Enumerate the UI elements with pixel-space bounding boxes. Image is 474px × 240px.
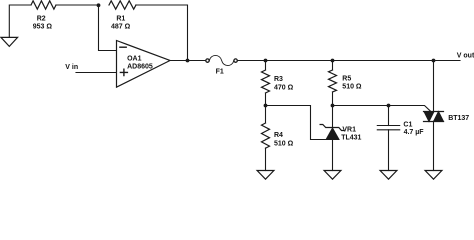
R2 labels [33,15,53,30]
capacitor C1 [377,126,399,130]
op-amp OA1 AD8605 [117,41,171,88]
label V in [65,64,78,71]
svg-text:510 Ω: 510 Ω [274,141,294,148]
R1 labels [111,16,131,31]
wire ground to R2 [9,5,31,37]
ground (below R4) [257,171,274,180]
ground (below triac) [425,171,442,180]
svg-text:V in: V in [65,64,78,71]
svg-text:VR1: VR1 [342,127,356,134]
junction C1 tap [387,104,391,108]
resistor R2 [31,1,56,9]
resistor R3 [262,70,270,93]
junction bus/triac [432,59,436,63]
svg-text:953 Ω: 953 Ω [33,24,53,31]
junction bus/R5 [331,59,335,63]
wire op-amp output [170,60,205,62]
wire bus to R3 [265,61,267,71]
svg-text:R4: R4 [274,132,283,139]
node B junction R3/R4/ref [264,104,268,108]
node C junction R5/VR1/gate wire [331,104,335,108]
svg-text:OA1: OA1 [127,55,142,62]
fuse F1 [206,55,238,65]
junction output node [186,59,190,63]
ground (below VR1) [324,171,341,180]
R3 labels [274,76,294,92]
triac BT137 [424,112,444,122]
wire triac MT1 to ground [433,122,435,171]
VR1 labels [341,127,361,142]
svg-text:510 Ω: 510 Ω [342,83,362,90]
svg-text:R5: R5 [342,75,351,82]
label V out [457,53,474,60]
svg-text:470 Ω: 470 Ω [274,85,294,92]
ground (below C1) [380,171,397,180]
wire feedback to inverting input [99,5,117,51]
shunt regulator VR1 TL431 [320,125,344,140]
svg-text:V out: V out [457,53,474,60]
resistor R4 [262,123,270,148]
wire R5 to node C [332,92,334,106]
wire R3 to node B [265,93,267,106]
wire R4 to ground [265,148,267,171]
svg-text:R2: R2 [37,15,46,22]
wire fuse to V out [238,60,460,62]
svg-text:R1: R1 [116,16,125,23]
wire node B to VR1 ref [266,106,328,140]
BT137 label [448,115,469,122]
svg-text:R3: R3 [274,76,283,83]
ground (top-left) [1,37,18,46]
svg-text:C1: C1 [403,121,412,128]
svg-text:AD8605: AD8605 [127,63,153,70]
wire bus to triac MT2 [433,61,435,112]
wire V in to non-inverting input [76,72,117,74]
wire node C to VR1 cathode [332,106,334,128]
wire node C to C1 and triac gate [333,106,431,112]
svg-text:487 Ω: 487 Ω [111,24,131,31]
resistor R5 [329,70,337,92]
C1 labels [403,121,424,136]
svg-text:F1: F1 [216,69,224,76]
wire VR1 to ground [332,140,334,171]
wire node B to R4 [265,106,267,124]
R4 labels [274,132,294,147]
wire C1 to ground [388,130,390,171]
svg-text:BT137: BT137 [448,115,469,122]
wire R1 to output node [136,5,188,61]
svg-text:4.7 µF: 4.7 µF [404,129,425,136]
svg-text:TL431: TL431 [341,135,361,142]
resistor R1 [109,1,136,9]
R5 labels [342,75,362,90]
wire to C1 top plate [388,106,390,126]
junction bus/R3 [264,59,268,63]
wire bus to R5 [332,61,334,71]
node A junction R2/R1/feedback [97,3,101,7]
wire R2 to node A [56,4,99,6]
F1 label [216,69,224,76]
